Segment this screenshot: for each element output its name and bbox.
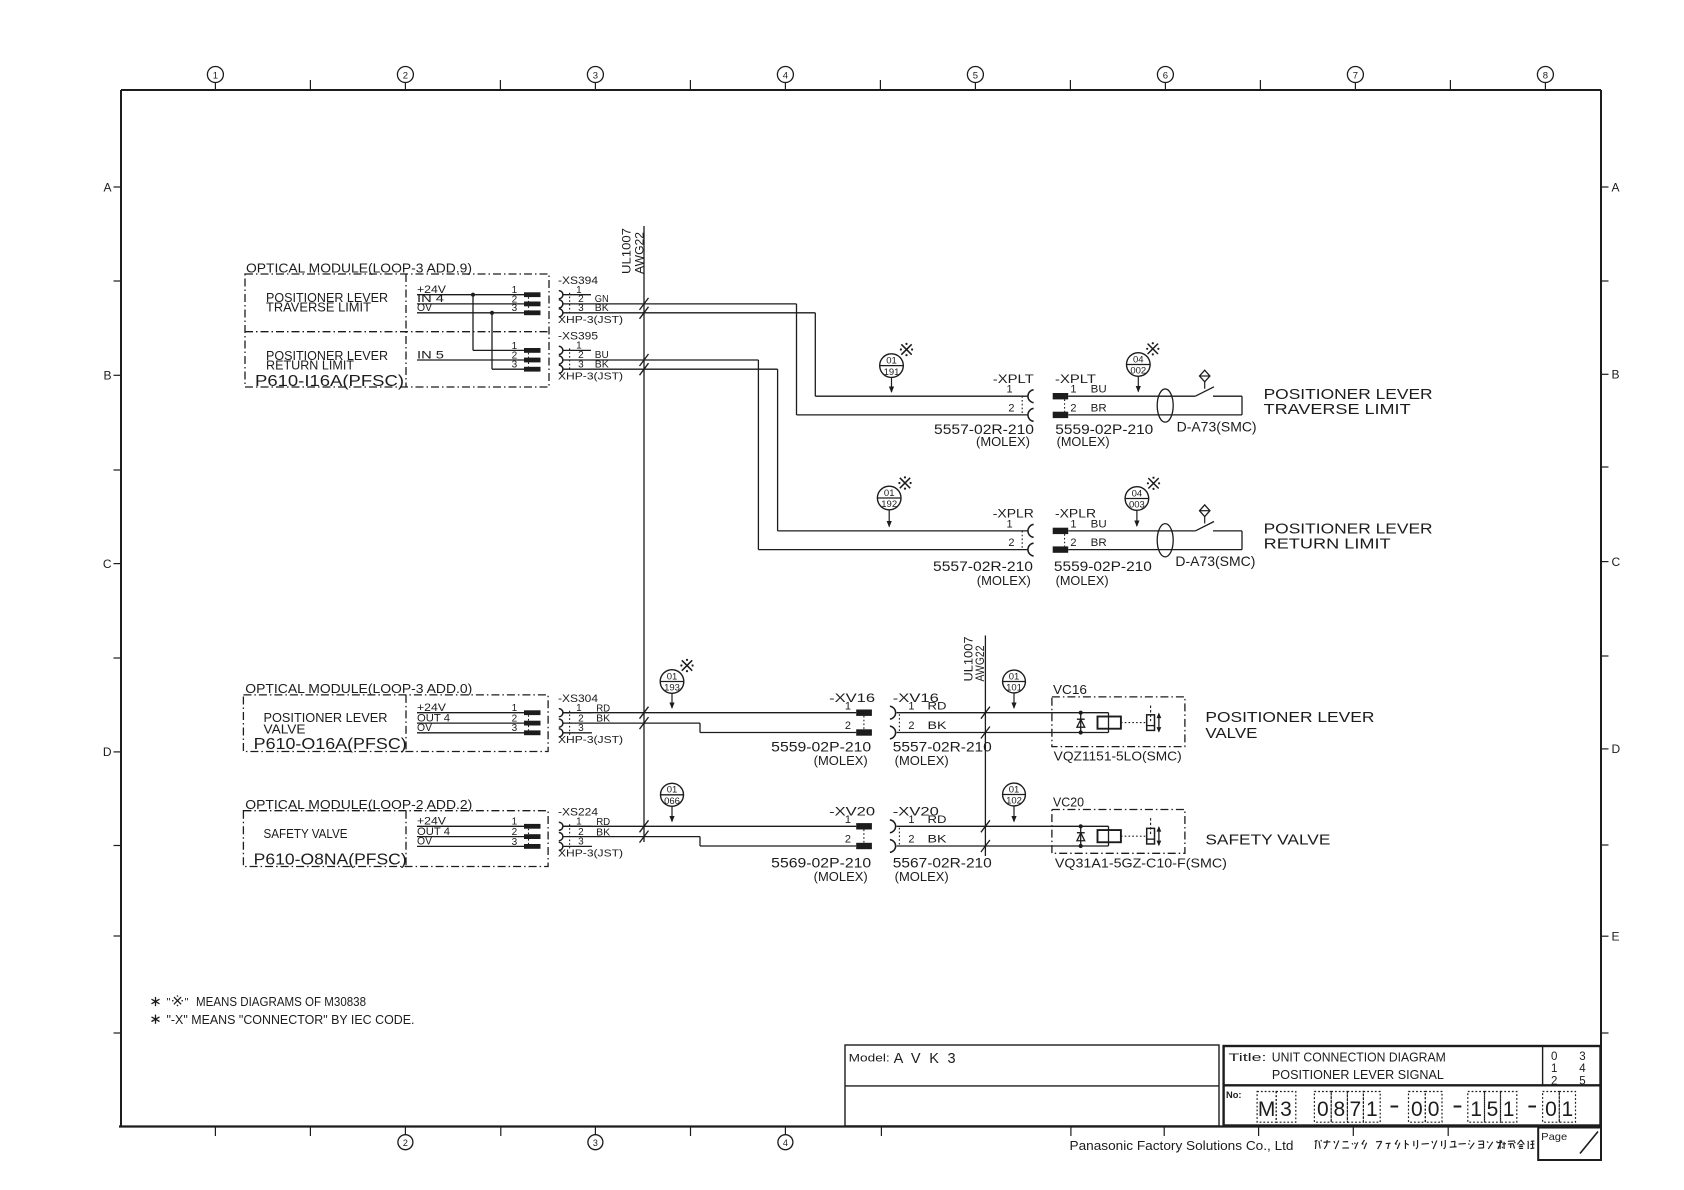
wire RD XS224 pin1 to XV20 xyxy=(564,825,857,827)
svg-text:3: 3 xyxy=(512,723,518,734)
svg-text:2: 2 xyxy=(908,720,914,732)
svg-text:AWG22: AWG22 xyxy=(633,232,647,274)
svg-text:04: 04 xyxy=(1133,354,1144,365)
drawing border frame xyxy=(119,90,1601,1127)
svg-text:Panasonic Factory Solutions Co: Panasonic Factory Solutions Co., Ltd xyxy=(1070,1138,1294,1153)
svg-text:5: 5 xyxy=(1579,1075,1585,1087)
svg-text:XHP-3(JST): XHP-3(JST) xyxy=(558,735,623,746)
part label 5559-02P-210 (MOLEX) XV16 xyxy=(771,740,871,769)
wire RD XV20 to valve VC20 xyxy=(897,825,1109,827)
signal 0V wire to XS394 pin3 xyxy=(417,302,524,314)
svg-text:XHP-3(JST): XHP-3(JST) xyxy=(558,371,623,382)
svg-text:01: 01 xyxy=(886,355,897,366)
svg-text:3: 3 xyxy=(512,360,518,371)
svg-text:P610-O8NA(PFSC): P610-O8NA(PFSC) xyxy=(254,851,407,868)
svg-text:C: C xyxy=(1612,555,1621,569)
svg-text:M: M xyxy=(1258,1098,1276,1121)
note about IEC connector code xyxy=(151,1013,414,1027)
pin labels RD BK for -XS304 xyxy=(596,704,610,725)
svg-text:7: 7 xyxy=(1353,70,1358,81)
svg-text:BU: BU xyxy=(1091,518,1107,530)
svg-text:VALVE: VALVE xyxy=(264,722,306,737)
top grid reference circles 1-8 xyxy=(207,67,1553,91)
junction dot 0V xyxy=(490,311,494,315)
svg-text:8: 8 xyxy=(1543,70,1548,81)
limit switch D-A73 traverse xyxy=(1068,370,1242,422)
svg-text:01: 01 xyxy=(884,488,895,499)
svg-text:04: 04 xyxy=(1132,488,1143,499)
svg-text:2: 2 xyxy=(1008,537,1014,549)
signal IN 5 wire to XS395 pin2 xyxy=(417,349,524,361)
svg-text:BK: BK xyxy=(928,720,948,732)
connector XS394 board pins 1-3 xyxy=(512,285,541,315)
svg-text:2: 2 xyxy=(845,720,851,732)
svg-text:UL1007: UL1007 xyxy=(620,228,634,274)
reference circle 04/002 with arrow xyxy=(1127,353,1151,393)
svg-text:1: 1 xyxy=(1551,1063,1557,1075)
svg-text:1: 1 xyxy=(1366,1098,1378,1121)
svg-text:1: 1 xyxy=(908,814,914,826)
signal +24V wire to XS304 pin1 xyxy=(417,702,524,714)
svg-text:01: 01 xyxy=(667,785,678,796)
reference mark note (valve) xyxy=(682,660,692,670)
sheet index numbers 0-5 xyxy=(1551,1051,1586,1087)
svg-text:1: 1 xyxy=(512,703,518,714)
svg-text:E: E xyxy=(1612,930,1620,944)
company name japanese katakana xyxy=(1315,1140,1503,1149)
optical module P610-O16A box (LOOP-3 ADD.0) xyxy=(243,681,548,751)
note about reference marks xyxy=(151,995,366,1009)
svg-text:102: 102 xyxy=(1006,796,1022,807)
svg-text:(MOLEX): (MOLEX) xyxy=(895,870,949,884)
svg-text:-XPLT: -XPLT xyxy=(993,372,1035,386)
part label 5559-02P-210 (MOLEX) xyxy=(1055,422,1153,449)
bundle crossing slashes XS394/XS395 wires xyxy=(640,298,649,375)
svg-text:1: 1 xyxy=(1070,384,1076,396)
svg-text:5559-02P-210: 5559-02P-210 xyxy=(771,740,871,755)
svg-text:3: 3 xyxy=(593,1138,598,1148)
svg-text:OPTICAL MODULE(LOOP-3 ADD.9): OPTICAL MODULE(LOOP-3 ADD.9) xyxy=(246,260,472,275)
bottom grid ticks and circles 2-4 xyxy=(215,1127,1448,1150)
part label 5557-02R-210 (MOLEX) return xyxy=(933,559,1033,588)
svg-text:RD: RD xyxy=(928,814,947,826)
svg-text:2: 2 xyxy=(403,70,408,81)
svg-text:5559-02P-210: 5559-02P-210 xyxy=(1054,559,1152,574)
reference circle 01/066 with arrow xyxy=(661,783,684,822)
svg-text:066: 066 xyxy=(664,796,680,807)
svg-text:2: 2 xyxy=(1070,402,1076,414)
svg-text:C: C xyxy=(103,557,112,571)
svg-text:MEANS DIAGRAMS OF M30838: MEANS DIAGRAMS OF M30838 xyxy=(196,995,366,1009)
svg-text:3: 3 xyxy=(512,837,518,848)
reference mark note (return left) xyxy=(900,478,910,488)
bundle crossing slashes XS224 wires xyxy=(640,820,649,842)
svg-text:Title:: Title: xyxy=(1229,1052,1267,1064)
svg-text:3: 3 xyxy=(1280,1098,1292,1121)
svg-text:D-A73(SMC): D-A73(SMC) xyxy=(1175,553,1255,569)
optical module P610-I16A box (LOOP-3 ADD.9) xyxy=(245,260,549,387)
svg-text:01: 01 xyxy=(1009,784,1020,795)
pin labels RD BK for -XS224 xyxy=(596,817,610,838)
solenoid valve VC20 with diode and manual override xyxy=(1052,810,1185,854)
svg-text:01: 01 xyxy=(1009,671,1020,682)
company name japanese kanji xyxy=(1498,1140,1534,1149)
svg-text:B: B xyxy=(1612,368,1620,382)
svg-text:(MOLEX): (MOLEX) xyxy=(814,870,868,884)
svg-text:0: 0 xyxy=(1551,1051,1557,1063)
reference mark note (return right) xyxy=(1148,478,1158,488)
connector XS224 board pins 1-3 xyxy=(512,817,541,849)
svg-text:3: 3 xyxy=(593,70,598,81)
signal IN 4 wire to XS394 pin2 xyxy=(417,293,524,305)
connector pair -XPLR (5557-02R / 5559-02P) xyxy=(993,507,1107,557)
svg-text:BU: BU xyxy=(1091,384,1107,396)
svg-text:SAFETY VALVE: SAFETY VALVE xyxy=(1205,831,1330,848)
left grid letters A-D with ticks xyxy=(103,180,121,1033)
part label 5557-02R-210 (MOLEX) XV16 xyxy=(893,740,992,769)
signal 0V wire to XS224 pin3 xyxy=(417,836,524,848)
part label 5567-02R-210 (MOLEX) XV20 xyxy=(893,855,992,884)
svg-text:No:: No: xyxy=(1226,1090,1242,1101)
svg-text:3: 3 xyxy=(1579,1051,1585,1063)
connector pair -XV20 (5569-02P / 5567-02R) xyxy=(829,804,947,852)
svg-text:5557-02R-210: 5557-02R-210 xyxy=(893,740,992,755)
svg-text:2: 2 xyxy=(908,834,914,846)
optical module P610-O8NA box (LOOP-2 ADD.2) xyxy=(243,797,548,867)
label POSITIONER LEVER VALVE (module cell) xyxy=(264,710,388,736)
svg-text:D-A73(SMC): D-A73(SMC) xyxy=(1177,419,1257,435)
wire BK XS395 pin3 to XPLR pin1 xyxy=(564,369,1029,531)
svg-text:VQ31A1-5GZ-C10-F(SMC): VQ31A1-5GZ-C10-F(SMC) xyxy=(1055,855,1227,870)
svg-text:-XPLR: -XPLR xyxy=(993,507,1034,521)
connector pair -XPLT (5557-02R / 5559-02P) xyxy=(993,372,1107,422)
part label 5559-02P-210 (MOLEX) return xyxy=(1054,559,1152,588)
label POSITIONER LEVER VALVE (right) xyxy=(1205,709,1374,742)
svg-text:0: 0 xyxy=(1428,1098,1440,1121)
label POSITIONER LEVER RETURN LIMIT (right) xyxy=(1264,520,1433,552)
svg-text:BK: BK xyxy=(928,834,948,846)
svg-text:0: 0 xyxy=(1411,1098,1423,1121)
svg-text:UNIT CONNECTION DIAGRAM: UNIT CONNECTION DIAGRAM xyxy=(1272,1050,1446,1065)
svg-text:4: 4 xyxy=(783,1138,788,1148)
bundle crossing slashes XS304 wires xyxy=(640,707,649,729)
part label 5569-02P-210 (MOLEX) XV20 xyxy=(771,855,871,884)
limit switch D-A73 return xyxy=(1068,505,1242,557)
signal +24V wire to XS224 pin1 xyxy=(417,816,524,828)
svg-text:Page: Page xyxy=(1541,1131,1567,1143)
svg-text:A: A xyxy=(103,180,111,194)
title block model cell xyxy=(845,1045,1219,1126)
svg-text:-XV20: -XV20 xyxy=(829,804,875,818)
svg-text:VALVE: VALVE xyxy=(1205,725,1257,742)
svg-text:1: 1 xyxy=(1562,1098,1574,1121)
label POSITIONER LEVER TRAVERSE LIMIT (right) xyxy=(1264,386,1433,418)
svg-text:0: 0 xyxy=(1545,1098,1557,1121)
svg-text:": " xyxy=(167,997,171,1009)
svg-text:OPTICAL MODULE(LOOP-3 ADD.0): OPTICAL MODULE(LOOP-3 ADD.0) xyxy=(245,681,472,696)
svg-text:1: 1 xyxy=(845,700,851,712)
wire BK XS394 pin3 to XPLT pin1 xyxy=(564,313,1029,396)
svg-text:193: 193 xyxy=(664,683,680,694)
signal OUT 4 wire to XS304 pin2 xyxy=(417,712,524,724)
wire +24V branch down to XS395 pin1 xyxy=(473,295,524,351)
connector pair -XV16 (5559-02P / 5557-02R) xyxy=(829,691,947,739)
svg-text:1: 1 xyxy=(1503,1098,1515,1121)
wire RD XS304 pin1 to XV16 xyxy=(564,712,857,714)
svg-text:POSITIONER LEVER: POSITIONER LEVER xyxy=(1205,709,1374,726)
svg-text:D: D xyxy=(103,745,112,759)
label POSITIONER LEVER RETURN LIMIT (module cell) xyxy=(266,348,388,373)
svg-text:VQZ1151-5LO(SMC): VQZ1151-5LO(SMC) xyxy=(1054,748,1182,763)
svg-text:TRAVERSE LIMIT: TRAVERSE LIMIT xyxy=(1264,401,1411,418)
wire RD XV16 to valve VC16 xyxy=(897,712,1109,714)
junction dot +24V xyxy=(471,293,475,297)
svg-text:(MOLEX): (MOLEX) xyxy=(895,754,949,768)
svg-text:1: 1 xyxy=(908,700,914,712)
connector XS395 board pins 1-3 xyxy=(512,341,541,372)
reference circle 01/191 with arrow xyxy=(880,354,904,393)
svg-text:RETURN LIMIT: RETURN LIMIT xyxy=(1264,535,1391,552)
svg-text:RETURN LIMIT: RETURN LIMIT xyxy=(266,358,354,373)
svg-text:1: 1 xyxy=(1470,1098,1482,1121)
right grid letters A-E with ticks xyxy=(1601,180,1621,1033)
title block title cell xyxy=(1224,1046,1601,1126)
svg-text:192: 192 xyxy=(881,499,897,510)
cable UL1007 AWG22 bundle line 2 xyxy=(962,636,987,857)
svg-text:1: 1 xyxy=(1006,518,1012,530)
svg-text:OPTICAL MODULE(LOOP-2 ADD.2): OPTICAL MODULE(LOOP-2 ADD.2) xyxy=(245,797,472,812)
svg-text:2: 2 xyxy=(403,1138,408,1148)
svg-text:P610-O16A(PFSC): P610-O16A(PFSC) xyxy=(254,736,407,753)
svg-text:SAFETY VALVE: SAFETY VALVE xyxy=(264,826,348,841)
svg-text:2: 2 xyxy=(1551,1075,1557,1087)
svg-text:TRAVERSE LIMIT: TRAVERSE LIMIT xyxy=(266,300,371,315)
svg-text:AWG22: AWG22 xyxy=(973,645,987,681)
wire BK XV20 to valve VC20 xyxy=(897,845,1109,847)
svg-text:XHP-3(JST): XHP-3(JST) xyxy=(558,315,623,326)
reference circle 01/102 with arrow xyxy=(1003,783,1026,822)
wire BK XS304 pin2 to XV16 xyxy=(564,723,857,732)
svg-text:(MOLEX): (MOLEX) xyxy=(1056,574,1109,588)
svg-text:BR: BR xyxy=(1091,537,1107,549)
reference circle 01/192 with arrow xyxy=(877,486,901,527)
signal OUT 4 wire to XS224 pin2 xyxy=(417,826,524,838)
reference mark note (traverse left) xyxy=(901,344,911,354)
svg-text:4: 4 xyxy=(1579,1063,1586,1075)
wire 0V branch down to XS395 pin3 xyxy=(492,313,524,369)
svg-text:": " xyxy=(185,997,189,1009)
svg-text:5569-02P-210: 5569-02P-210 xyxy=(771,855,871,870)
svg-text:2: 2 xyxy=(1008,402,1014,414)
svg-text:(MOLEX): (MOLEX) xyxy=(977,574,1031,588)
connector -XS395 cable side XHP-3(JST) xyxy=(558,331,623,383)
svg-text:1: 1 xyxy=(213,70,218,81)
svg-text:Model:: Model: xyxy=(849,1053,890,1065)
svg-text:191: 191 xyxy=(884,367,900,378)
wire BU XS395 pin2 to XPLR pin2 xyxy=(564,360,1029,550)
svg-text:BR: BR xyxy=(1091,402,1107,414)
reference circle 01/193 with arrow xyxy=(660,670,684,709)
svg-text:5: 5 xyxy=(973,70,978,81)
reference mark note (traverse right) xyxy=(1148,344,1158,354)
svg-text:002: 002 xyxy=(1130,366,1146,377)
reference circle 04/003 with arrow xyxy=(1125,487,1149,527)
svg-text:003: 003 xyxy=(1129,500,1145,511)
connector -XS394 cable side XHP-3(JST) xyxy=(558,275,623,326)
svg-text:1: 1 xyxy=(1006,384,1012,396)
svg-text:1: 1 xyxy=(1070,518,1076,530)
wire BK XV16 to valve VC16 xyxy=(897,732,1109,734)
svg-text:XHP-3(JST): XHP-3(JST) xyxy=(558,849,623,860)
svg-text:A: A xyxy=(1612,180,1620,194)
bundle 2 crossing slashes XV16 wires xyxy=(981,707,990,739)
svg-text:8: 8 xyxy=(1333,1098,1345,1121)
page cell xyxy=(1538,1128,1601,1161)
svg-text:0: 0 xyxy=(1317,1098,1329,1121)
wire GN XS394 pin2 to XPLT pin2 xyxy=(564,304,1029,415)
svg-text:D: D xyxy=(1612,742,1621,756)
signal +24V wire to XS394 pin1 xyxy=(417,284,524,296)
connector XS304 board pins 1-3 xyxy=(512,703,541,735)
reference circle 01/101 with arrow xyxy=(1003,670,1026,709)
connector -XS224 cable side XHP-3(JST) xyxy=(558,807,623,860)
svg-text:(MOLEX): (MOLEX) xyxy=(1057,435,1110,449)
svg-text:P610-I16A(PFSC): P610-I16A(PFSC) xyxy=(255,373,404,390)
svg-text:VC16: VC16 xyxy=(1053,683,1087,697)
svg-text:1: 1 xyxy=(845,814,851,826)
svg-text:B: B xyxy=(103,369,111,383)
label POSITIONER LEVER TRAVERSE LIMIT (module cell) xyxy=(266,290,388,315)
svg-text:"-X" MEANS "CONNECTOR" BY IEC: "-X" MEANS "CONNECTOR" BY IEC CODE. xyxy=(167,1013,415,1027)
svg-text:2: 2 xyxy=(1070,537,1076,549)
svg-text:RD: RD xyxy=(928,700,947,712)
svg-text:VC20: VC20 xyxy=(1053,796,1084,810)
svg-text:(MOLEX): (MOLEX) xyxy=(976,435,1030,449)
svg-text:101: 101 xyxy=(1006,683,1022,694)
signal 0V wire to XS304 pin3 xyxy=(417,722,524,734)
svg-text:5: 5 xyxy=(1487,1098,1499,1121)
connector -XS304 cable side XHP-3(JST) xyxy=(558,693,623,746)
svg-text:01: 01 xyxy=(667,671,678,682)
svg-text:5557-02R-210: 5557-02R-210 xyxy=(933,559,1033,574)
svg-text:4: 4 xyxy=(783,70,788,81)
svg-text:-XV16: -XV16 xyxy=(829,691,875,705)
top grid half ticks xyxy=(310,80,1450,90)
svg-text:POSITIONER LEVER SIGNAL: POSITIONER LEVER SIGNAL xyxy=(1272,1067,1444,1082)
svg-text:2: 2 xyxy=(845,834,851,846)
svg-text:3: 3 xyxy=(512,303,518,314)
bundle 2 crossing slashes XV20 wires xyxy=(981,820,990,852)
svg-text:6: 6 xyxy=(1163,70,1168,81)
solenoid valve VC16 with diode and manual override xyxy=(1052,697,1185,747)
drawing number cell No: M3 0871-00-151-01 xyxy=(1226,1090,1576,1122)
svg-text:5567-02R-210: 5567-02R-210 xyxy=(893,855,992,870)
svg-text:7: 7 xyxy=(1350,1098,1362,1121)
svg-text:(MOLEX): (MOLEX) xyxy=(814,754,868,768)
cable UL1007 AWG22 bundle line xyxy=(620,226,647,842)
part label 5557-02R-210 (MOLEX) xyxy=(934,422,1034,449)
wire BK XS224 pin2 to XV20 xyxy=(564,837,857,846)
